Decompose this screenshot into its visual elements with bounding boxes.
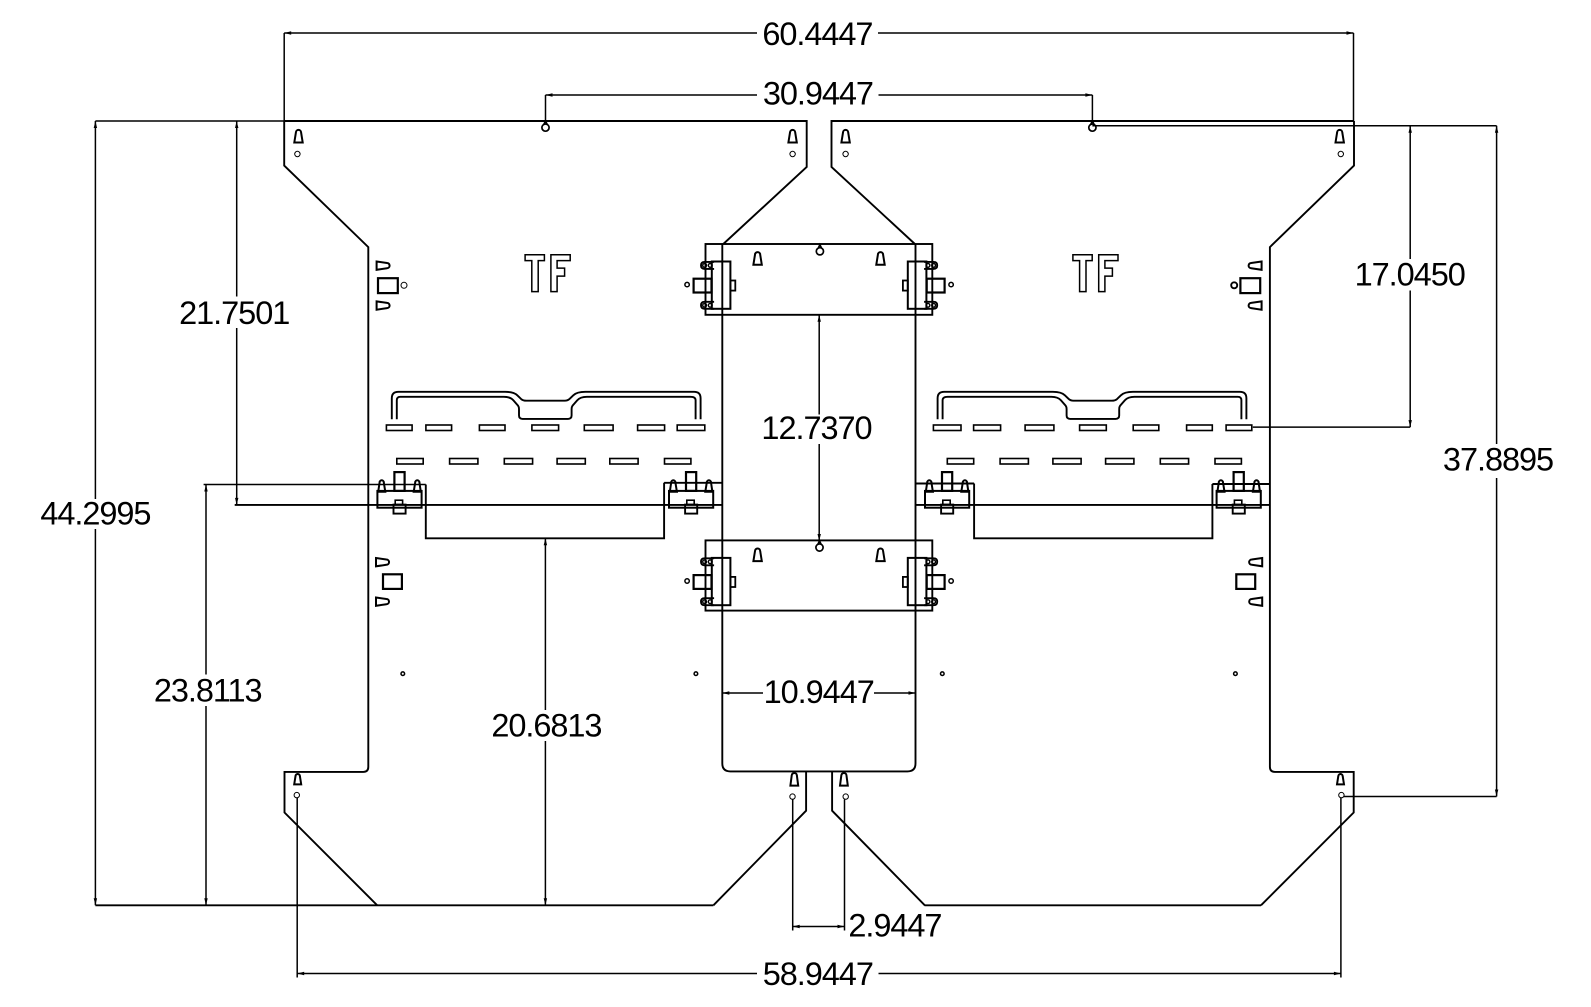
svg-text:30.9447: 30.9447	[763, 75, 873, 111]
slot left panel side upper	[377, 262, 390, 270]
clamp top bracket right	[903, 262, 953, 309]
2.9447 left extension	[792, 800, 794, 931]
right panel outline	[832, 121, 1355, 244]
left panel inner bottom corner	[713, 772, 806, 906]
keyhole slot top bracket left	[753, 252, 761, 265]
svg-text:2.9447: 2.9447	[848, 907, 941, 943]
21.7501 dimension line	[236, 121, 238, 297]
keyhole bottom bracket center	[818, 541, 821, 544]
clamp bottom bracket left	[685, 558, 735, 605]
44.2995 dimension line	[94, 121, 96, 499]
svg-text:37.8895: 37.8895	[1443, 442, 1553, 478]
svg-text:10.9447: 10.9447	[764, 674, 874, 710]
30.9447 dimension line	[546, 94, 758, 96]
17.0450 dimension line	[1409, 126, 1411, 259]
keyhole slot bottom bracket left	[753, 548, 761, 561]
svg-text:17.0450: 17.0450	[1355, 257, 1465, 293]
58.9447 left extension	[296, 798, 298, 978]
clamp bottom bracket right	[903, 558, 953, 605]
60.4447 right extension	[1353, 33, 1355, 121]
svg-text:60.4447: 60.4447	[762, 16, 872, 52]
right lower box	[974, 484, 1212, 539]
right panel inner bottom corner	[832, 772, 925, 906]
60.4447 left extension	[283, 33, 285, 121]
keyhole top bracket center	[818, 245, 821, 248]
17.0450 bottom extension	[1253, 426, 1410, 428]
keyhole left panel bottom-right	[790, 773, 798, 786]
left lower box	[426, 483, 664, 539]
dash row 2 right panel	[1215, 459, 1241, 465]
bottom mounting bracket	[706, 540, 933, 610]
slot left panel side upper 2	[377, 301, 390, 309]
dot	[694, 672, 698, 676]
dash row 2 left panel	[397, 459, 423, 465]
square cutout left panel upper	[378, 278, 398, 293]
60.4447 dimension line	[284, 32, 757, 34]
right panel side lower cluster	[1236, 558, 1262, 606]
clamp top bracket left	[685, 262, 735, 309]
svg-text:58.9447: 58.9447	[763, 956, 873, 992]
2.9447 dimension line	[793, 926, 845, 928]
square cutout left panel lower	[383, 574, 402, 589]
right panel side upper cluster	[1231, 262, 1261, 310]
keyhole right panel top edge	[1091, 121, 1094, 124]
slot left panel side lower	[376, 558, 389, 566]
keyhole left panel top-left	[294, 130, 302, 143]
dot	[401, 672, 405, 676]
keyhole slot top bracket right	[876, 252, 884, 265]
right panel line A	[1212, 483, 1270, 485]
svg-text:23.8113: 23.8113	[154, 672, 262, 708]
10.9447 dimension line	[722, 692, 763, 694]
23.8113 extension line	[204, 484, 426, 486]
12.7370 dimension line	[818, 315, 820, 415]
keyhole right panel top-left	[841, 130, 849, 143]
right mid horizontal	[916, 504, 1271, 506]
clamp left panel left	[377, 472, 421, 513]
keyhole left panel top-right	[788, 130, 796, 143]
23.8113 dimension line	[205, 485, 207, 675]
keyhole left panel top edge	[544, 121, 547, 124]
dot	[1234, 672, 1238, 676]
svg-text:12.7370: 12.7370	[761, 410, 871, 446]
slot left panel side lower 2	[376, 598, 389, 606]
37.8895 dimension line	[1496, 126, 1498, 444]
clamp right panel left	[925, 472, 969, 513]
TF label right panel	[1073, 255, 1118, 292]
right panel bottom edge	[925, 904, 1262, 906]
30.9447 right extension	[1091, 95, 1093, 121]
30.9447 left extension	[545, 95, 547, 121]
58.9447 right extension	[1340, 798, 1342, 978]
keyhole left panel bottom-left	[294, 774, 301, 784]
central column	[722, 244, 915, 771]
keyhole slot bottom bracket right	[876, 549, 884, 562]
dash row 1 right panel	[1226, 425, 1252, 431]
TF label left panel	[525, 255, 570, 292]
clamp right panel right	[1217, 472, 1261, 513]
44.2995 extension line top	[95, 120, 284, 122]
left panel bent rail	[392, 392, 701, 419]
37.8895 bottom extension	[1344, 796, 1497, 798]
2.9447 right extension	[844, 800, 846, 931]
dash row 1 left panel	[386, 425, 412, 431]
keyhole right panel bottom-left	[840, 773, 848, 786]
17.0450/37.8895 top extension	[1092, 125, 1496, 127]
clamp left panel right	[669, 472, 713, 513]
58.9447 dimension line	[297, 973, 757, 975]
svg-text:21.7501: 21.7501	[179, 295, 289, 331]
dot	[941, 672, 945, 676]
top mounting bracket	[706, 244, 933, 315]
keyhole right panel bottom-right	[1337, 774, 1344, 784]
keyhole right panel top-right	[1336, 130, 1344, 143]
left panel outline	[284, 121, 807, 244]
dimension arrowheads	[284, 31, 291, 34]
left mid horizontal (21.7501 datum)	[235, 504, 723, 506]
20.6813 dimension line	[544, 538, 546, 710]
svg-text:44.2995: 44.2995	[40, 496, 150, 532]
svg-text:20.6813: 20.6813	[491, 708, 601, 744]
left panel bottom edge + extension	[95, 904, 713, 906]
connector left box to column	[664, 482, 722, 484]
connector column to right box	[916, 483, 975, 485]
right panel bent rail	[938, 392, 1247, 419]
